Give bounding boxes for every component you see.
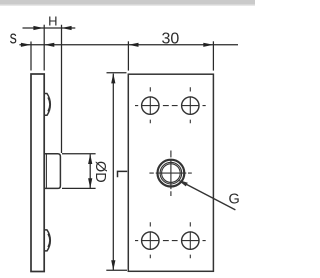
- dimension line OD: [89, 154, 91, 188]
- arrow H left: [33, 26, 43, 30]
- shared dimension line for s and 30: [19, 44, 238, 46]
- center threaded hole rings: [158, 160, 185, 187]
- extension line boss face: [61, 25, 63, 153]
- svg-text:ØD: ØD: [92, 161, 108, 183]
- extension lines length l: [106, 73, 127, 270]
- side view plate: [31, 74, 44, 272]
- center hole centerline dashes: [149, 151, 191, 197]
- svg-text:G: G: [229, 191, 240, 207]
- weld projection top: [44, 94, 50, 116]
- top grey band: [0, 0, 255, 5]
- extension line plate left face: [30, 42, 32, 71]
- dimension line H: [23, 27, 76, 29]
- centerline dashes bottom holes vertical: [150, 222, 190, 258]
- boss (threaded bush) side view outline: [44, 154, 60, 189]
- corner hole bottom-left: [142, 232, 159, 249]
- front view rectangle: [128, 74, 213, 271]
- l glyph (drawn, rotated lowercase l): [118, 171, 128, 177]
- centerline dashes bottom hole row: [135, 240, 206, 242]
- corner hole bottom-right: [182, 232, 199, 249]
- centerline dashes top holes vertical: [150, 87, 190, 123]
- leader arrowhead: [177, 180, 188, 187]
- corner hole top-left: [142, 97, 159, 114]
- crosshair bottom-left hole: [141, 231, 159, 249]
- dimension line l: [112, 74, 114, 271]
- arrow H right: [62, 26, 72, 30]
- leader line to thread G: [181, 181, 236, 210]
- arrow l down: [111, 260, 115, 270]
- boss weld shoulder line: [45, 154, 47, 188]
- corner hole top-right: [182, 97, 199, 114]
- svg-text:H: H: [48, 14, 57, 29]
- centerline dashes top hole row: [135, 105, 206, 107]
- crosshair bottom-right hole: [181, 231, 199, 249]
- svg-text:30: 30: [162, 31, 180, 48]
- crosshair top-right hole: [181, 96, 199, 114]
- arrow s right: [44, 43, 54, 47]
- svg-text:s: s: [10, 27, 17, 48]
- extension lines boss diameter: [62, 154, 96, 189]
- extension line front plate right: [212, 41, 214, 70]
- arrow s left: [21, 43, 31, 47]
- center hole crosshair: [156, 159, 187, 189]
- weld projection bottom: [44, 230, 50, 251]
- arrow OD down: [88, 178, 92, 188]
- arrow OD up: [88, 154, 92, 164]
- crosshair top-left hole: [141, 96, 159, 114]
- arrow l up: [111, 73, 115, 83]
- arrow 30 right: [203, 43, 213, 47]
- extension line front plate left: [127, 41, 129, 70]
- extension line plate right face: [43, 25, 45, 71]
- arrow 30 left: [128, 43, 138, 47]
